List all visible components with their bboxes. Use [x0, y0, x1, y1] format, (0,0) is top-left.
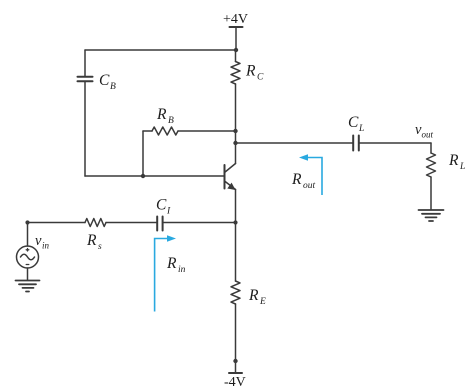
svg-text:v: v [35, 233, 42, 249]
resistor R_s [28, 219, 158, 227]
svg-text:B: B [168, 116, 174, 126]
wire v_in to ground [27, 268, 29, 280]
svg-text:out: out [422, 130, 434, 140]
ground under v_in [16, 281, 40, 292]
wire R_B left leg [142, 131, 144, 176]
svg-text:R: R [156, 106, 167, 123]
wire v_in top [27, 223, 29, 247]
junction dot -4V [233, 359, 237, 363]
svg-text:C: C [257, 73, 264, 83]
svg-text:R: R [166, 255, 177, 272]
arrow R_in [155, 235, 176, 311]
wire to emitter [163, 222, 236, 224]
svg-text:C: C [99, 72, 110, 89]
svg-text:E: E [259, 297, 266, 307]
svg-text:-4V: -4V [224, 375, 246, 390]
wire collector node [235, 131, 237, 143]
svg-text:s: s [98, 242, 102, 252]
svg-text:L: L [459, 162, 465, 172]
svg-text:in: in [178, 265, 186, 275]
svg-text:R: R [448, 152, 459, 169]
wire left rail upper [84, 50, 86, 76]
transistor Q1 [225, 164, 236, 191]
svg-text:I: I [166, 207, 171, 217]
wire left rail lower [84, 81, 86, 176]
junction dot output node [233, 141, 237, 145]
arrow R_out [299, 154, 322, 195]
-4V supply [229, 361, 242, 373]
resistor R_E [231, 223, 240, 362]
svg-text:R: R [245, 63, 256, 80]
capacitor C_L [353, 136, 359, 151]
capacitor C_I [157, 217, 162, 231]
wire collector to transistor [235, 143, 237, 164]
wire output [236, 142, 354, 144]
svg-text:in: in [42, 241, 50, 251]
junction dot top rail [234, 48, 238, 52]
source v_in [17, 246, 39, 268]
svg-text:R: R [248, 287, 259, 304]
resistor R_B [143, 127, 236, 135]
wire top rail [85, 49, 236, 51]
+4V supply [230, 27, 243, 50]
svg-text:L: L [358, 124, 364, 134]
ground under R_L [419, 210, 444, 221]
junction dot v_in [25, 220, 29, 224]
svg-text:+4V: +4V [223, 12, 248, 27]
capacitor C_B [78, 77, 93, 81]
junction dot R_B collector [233, 129, 237, 133]
svg-text:R: R [86, 232, 97, 249]
resistor R_C [231, 50, 240, 131]
svg-text:C: C [156, 197, 167, 214]
wire base [85, 175, 225, 177]
wire emitter [235, 190, 237, 223]
svg-text:C: C [348, 114, 359, 131]
svg-text:B: B [110, 82, 116, 92]
svg-text:out: out [303, 181, 316, 191]
junction dot base [141, 174, 145, 178]
junction dot emitter node [233, 220, 237, 224]
svg-text:R: R [291, 171, 302, 188]
resistor R_L [427, 143, 436, 210]
wire to load [359, 142, 431, 144]
